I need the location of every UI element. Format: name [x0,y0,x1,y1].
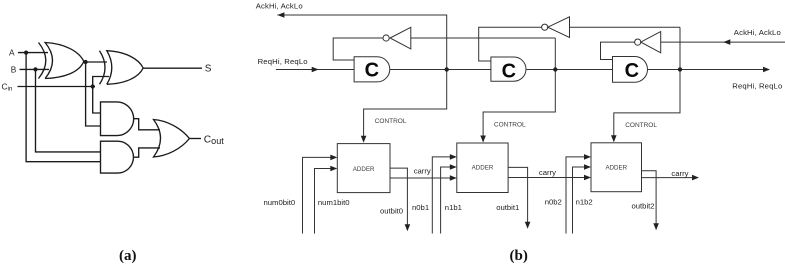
svg-text:ReqHi, ReqLo: ReqHi, ReqLo [258,57,308,66]
svg-text:(b): (b) [510,248,528,264]
svg-text:C: C [625,60,639,82]
svg-text:carry: carry [414,166,431,175]
svg-text:S: S [205,64,212,75]
svg-text:num0bit0: num0bit0 [264,198,296,207]
svg-text:n1b2: n1b2 [576,198,593,207]
svg-text:ADDER: ADDER [353,166,375,173]
svg-text:outbit2: outbit2 [632,201,655,210]
svg-text:A: A [9,47,15,57]
svg-text:CONTROL: CONTROL [375,118,407,125]
svg-text:ADDER: ADDER [605,164,627,171]
svg-text:(a): (a) [119,248,137,264]
svg-text:carry: carry [671,169,688,178]
svg-text:C: C [365,60,379,82]
svg-text:CONTROL: CONTROL [625,122,657,129]
svg-text:Cout: Cout [204,135,224,146]
svg-text:CONTROL: CONTROL [494,122,526,129]
svg-text:ReqHi, ReqLo: ReqHi, ReqLo [732,82,782,91]
svg-text:B: B [11,64,17,74]
svg-text:n0b2: n0b2 [545,198,562,207]
svg-text:n1b1: n1b1 [445,203,462,212]
svg-text:outbit0: outbit0 [380,206,403,215]
svg-text:AckHi, AckLo: AckHi, AckLo [734,28,781,37]
svg-text:carry: carry [539,168,556,177]
svg-text:C: C [502,60,516,82]
svg-text:AckHi, AckLo: AckHi, AckLo [256,2,303,11]
svg-text:outbit1: outbit1 [496,203,519,212]
svg-text:n0b1: n0b1 [412,203,429,212]
svg-text:num1bit0: num1bit0 [318,198,350,207]
svg-text:ADDER: ADDER [472,165,494,172]
